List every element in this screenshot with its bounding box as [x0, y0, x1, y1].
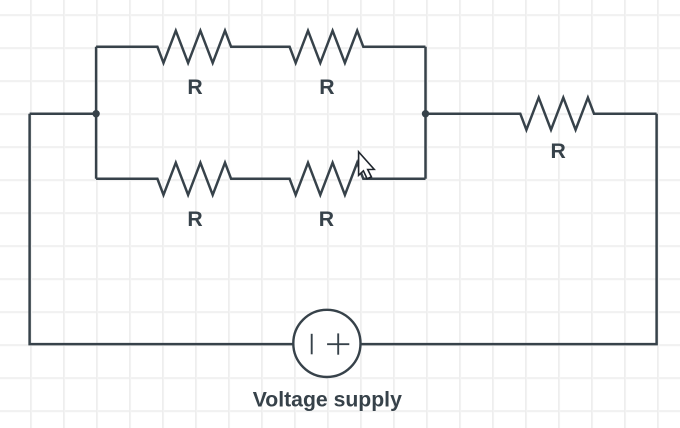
svg-text:R: R: [551, 140, 566, 163]
svg-text:R: R: [319, 208, 334, 231]
svg-text:R: R: [187, 208, 202, 231]
svg-text:Voltage supply: Voltage supply: [253, 388, 402, 411]
svg-text:R: R: [319, 76, 334, 99]
svg-text:R: R: [187, 76, 202, 99]
